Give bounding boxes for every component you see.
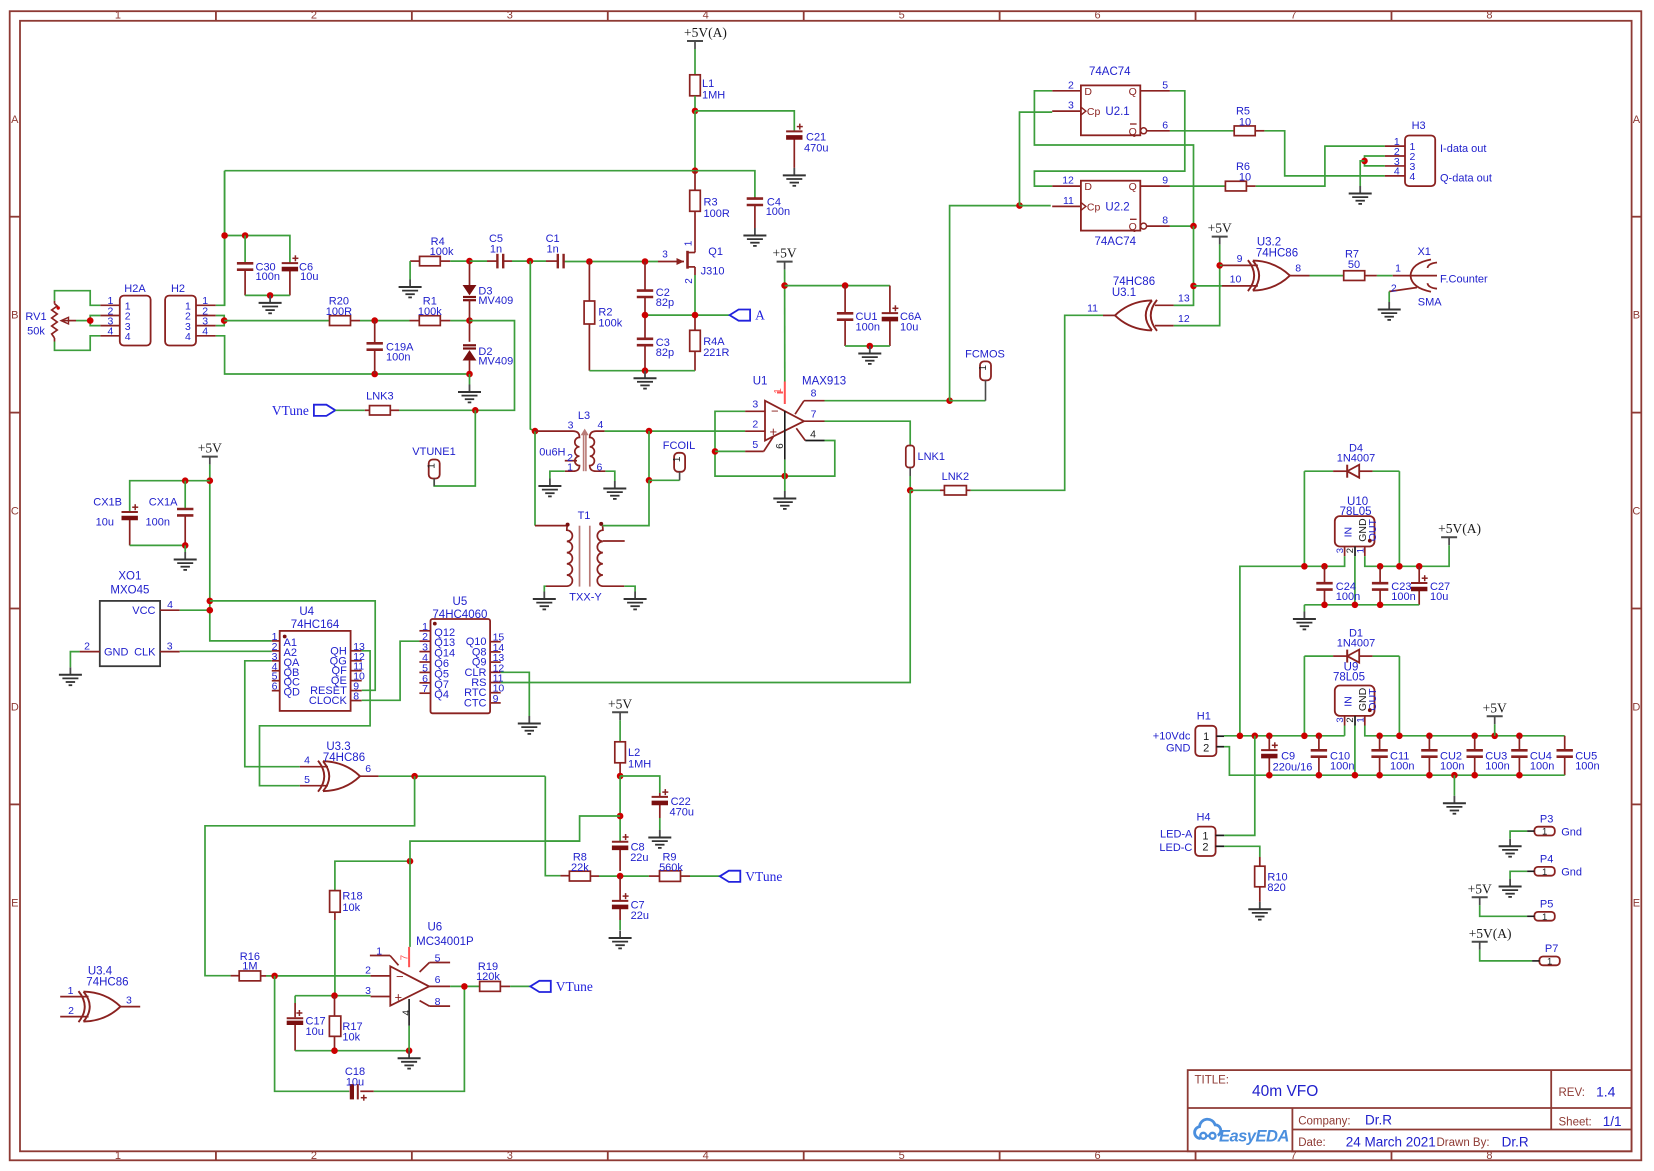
svg-text:7: 7 bbox=[400, 954, 411, 960]
ground X1 bbox=[1378, 302, 1401, 320]
binary counter U5 74HC4060 bbox=[419, 596, 504, 713]
svg-text:100n: 100n bbox=[856, 322, 880, 334]
junction grail C10 bbox=[1316, 772, 1323, 779]
wire C30 drop bbox=[244, 236, 246, 263]
junction C24 top bbox=[1321, 563, 1328, 570]
wire osc bottom rail bbox=[589, 370, 695, 372]
svg-text:100n: 100n bbox=[1336, 591, 1360, 603]
wire pin9 stub bbox=[1220, 264, 1222, 266]
wire LNK3 to node bbox=[399, 409, 475, 411]
wire R18 net bbox=[335, 861, 410, 891]
svg-text:1: 1 bbox=[567, 462, 573, 474]
svg-text:A: A bbox=[1633, 114, 1641, 126]
svg-text:3: 3 bbox=[1335, 717, 1346, 722]
svg-text:+5V(A): +5V(A) bbox=[1438, 521, 1481, 536]
svg-text:A: A bbox=[11, 114, 19, 126]
svg-text:5: 5 bbox=[899, 10, 905, 22]
net flag VTune out bbox=[530, 979, 593, 994]
wire C30-C6 bottom bbox=[245, 294, 290, 296]
svg-text:100k: 100k bbox=[418, 306, 442, 318]
svg-text:10u: 10u bbox=[900, 322, 918, 334]
connector X1 SMA bbox=[1389, 246, 1488, 308]
wire A line bbox=[645, 314, 730, 316]
svg-text:Q: Q bbox=[1129, 86, 1137, 98]
svg-text:+5V: +5V bbox=[1468, 881, 1492, 896]
ground C21 bbox=[783, 168, 806, 186]
svg-text:470u: 470u bbox=[670, 807, 694, 819]
svg-text:74HC164: 74HC164 bbox=[291, 619, 340, 631]
junction varactor mid node bbox=[466, 317, 473, 324]
svg-text:100n: 100n bbox=[1530, 761, 1554, 773]
svg-text:7: 7 bbox=[1290, 10, 1296, 22]
wire C18 branch bbox=[275, 976, 349, 1091]
svg-text:2: 2 bbox=[1068, 79, 1074, 91]
svg-text:B: B bbox=[1633, 310, 1640, 322]
svg-text:22k: 22k bbox=[571, 862, 589, 874]
wire U9 in stub bbox=[1344, 726, 1346, 736]
svg-text:13: 13 bbox=[1178, 293, 1190, 305]
wire RS long wire bbox=[501, 490, 911, 682]
junction rail H4 bbox=[1252, 733, 1259, 740]
wire Q2b net bbox=[1170, 225, 1194, 227]
flip-flop U2.2 74AC74 bbox=[1052, 175, 1170, 248]
ground P4 bbox=[1499, 879, 1522, 897]
svg-text:4: 4 bbox=[703, 1150, 709, 1162]
wire +5V L2 drop bbox=[619, 720, 621, 741]
svg-text:3: 3 bbox=[507, 1150, 513, 1162]
svg-text:EasyEDA: EasyEDA bbox=[1219, 1128, 1289, 1146]
capacitor CX1B bbox=[93, 497, 138, 546]
wire U3.3 to R8 bbox=[545, 776, 560, 876]
wire VTune to LNK3 bbox=[335, 409, 364, 411]
svg-text:100n: 100n bbox=[386, 352, 410, 364]
junction rail D1l bbox=[1301, 733, 1308, 740]
power flag +5V(A) P7 bbox=[1469, 926, 1512, 950]
wire H3.2 stub bbox=[1365, 156, 1385, 161]
pin P3 bbox=[1527, 813, 1582, 838]
svg-text:H1: H1 bbox=[1197, 710, 1211, 722]
svg-text:1: 1 bbox=[773, 388, 784, 394]
capacitor CU5 bbox=[1557, 736, 1600, 775]
wire long rail y171 bbox=[225, 170, 695, 172]
junction grail C9 bbox=[1266, 772, 1273, 779]
wire RV1 bot to H2A.4 bbox=[55, 336, 101, 351]
wire +5V drop bbox=[1219, 245, 1222, 326]
svg-text:Q: Q bbox=[1129, 221, 1137, 233]
svg-text:4: 4 bbox=[598, 419, 604, 431]
svg-text:1.4: 1.4 bbox=[1596, 1084, 1616, 1100]
svg-text:22u: 22u bbox=[631, 910, 649, 922]
svg-text:3: 3 bbox=[1068, 100, 1074, 112]
svg-text:4: 4 bbox=[402, 1010, 413, 1016]
capacitor C6 bbox=[282, 255, 319, 295]
wire vplus zig bbox=[410, 841, 580, 861]
svg-text:Q: Q bbox=[1129, 126, 1137, 138]
wire R4 to C5 node bbox=[450, 260, 469, 262]
capacitor CU1 bbox=[837, 286, 880, 346]
xor gate U3.1 74HC86 bbox=[1087, 276, 1190, 331]
junction U3.3 out node bbox=[411, 773, 418, 780]
svg-text:10: 10 bbox=[1239, 116, 1251, 128]
junction A-C3 bbox=[642, 312, 649, 319]
wire D1 left drop bbox=[1303, 656, 1305, 736]
wire R8 to node bbox=[599, 875, 649, 877]
wire gate line bbox=[565, 261, 659, 263]
wire gnd stub rail bbox=[1453, 775, 1455, 796]
resistor R3 bbox=[690, 171, 730, 251]
wire U1 pin3 feedback bbox=[715, 411, 785, 476]
svg-text:221R: 221R bbox=[703, 347, 729, 359]
svg-text:B: B bbox=[11, 310, 18, 322]
svg-text:100n: 100n bbox=[1391, 591, 1415, 603]
svg-text:1: 1 bbox=[1355, 717, 1366, 722]
junction rail D1r bbox=[1396, 733, 1403, 740]
svg-text:6: 6 bbox=[1095, 10, 1101, 22]
wire R16 to pin2 bbox=[266, 975, 371, 977]
junction L1 node bbox=[692, 108, 699, 115]
diode D4 1N4007 bbox=[1304, 442, 1399, 477]
title block bbox=[1188, 1070, 1632, 1151]
svg-text:2: 2 bbox=[684, 278, 695, 284]
varactor D2 bbox=[463, 321, 513, 374]
svg-text:CX1B: CX1B bbox=[93, 497, 122, 509]
svg-text:VTUNE1: VTUNE1 bbox=[412, 446, 455, 458]
svg-text:P4: P4 bbox=[1540, 854, 1553, 866]
svg-text:11: 11 bbox=[1087, 303, 1098, 315]
wire CLK wire bbox=[180, 650, 272, 652]
net flag VTune mid bbox=[720, 869, 783, 884]
svg-text:H2: H2 bbox=[171, 283, 185, 295]
svg-text:1N4007: 1N4007 bbox=[1337, 453, 1376, 465]
junction C23 bot bbox=[1377, 602, 1384, 609]
svg-text:10u: 10u bbox=[306, 1026, 324, 1038]
svg-text:P5: P5 bbox=[1540, 899, 1553, 911]
svg-text:9: 9 bbox=[493, 693, 499, 705]
capacitor C6A bbox=[882, 286, 922, 346]
ground T1 right bbox=[624, 592, 647, 610]
svg-text:11: 11 bbox=[1063, 195, 1074, 207]
svg-text:U3.1: U3.1 bbox=[1112, 287, 1136, 299]
wire LNK1 to node bbox=[909, 476, 911, 490]
svg-text:A: A bbox=[755, 308, 765, 323]
ground XO1 bbox=[59, 667, 82, 685]
capacitor CU3 bbox=[1467, 736, 1510, 775]
svg-text:1: 1 bbox=[978, 365, 989, 371]
svg-text:−: − bbox=[396, 969, 404, 984]
wire L3 pin1 gnd bbox=[550, 471, 565, 478]
junction D2 bottom node bbox=[466, 371, 473, 378]
junction U6 gnd node bbox=[406, 1047, 413, 1054]
ground R4 bbox=[399, 280, 422, 298]
svg-text:Gnd: Gnd bbox=[1561, 826, 1582, 838]
svg-text:8: 8 bbox=[435, 996, 441, 1008]
wire CLR gnd bbox=[501, 672, 530, 716]
svg-text:MXO45: MXO45 bbox=[110, 585, 149, 597]
svg-text:100n: 100n bbox=[1330, 761, 1354, 773]
svg-text:10u: 10u bbox=[1430, 591, 1448, 603]
svg-text:P3: P3 bbox=[1540, 813, 1553, 825]
svg-text:8: 8 bbox=[1162, 215, 1168, 227]
resistor R6 bbox=[1225, 161, 1255, 191]
junction mod node bbox=[617, 813, 624, 820]
svg-text:L1: L1 bbox=[702, 78, 714, 90]
EasyEDA logo bbox=[1195, 1119, 1289, 1145]
power flag +5V P5 bbox=[1468, 881, 1492, 905]
svg-text:3: 3 bbox=[507, 10, 513, 22]
svg-text:H4: H4 bbox=[1196, 812, 1210, 824]
wire junction to C21 bbox=[695, 111, 794, 131]
capacitor C9 bbox=[1261, 736, 1312, 775]
ground CX bbox=[174, 552, 197, 570]
junction CU1 rail node bbox=[781, 282, 788, 289]
wire clock riser bbox=[950, 206, 1020, 401]
wire L1 node down bbox=[694, 111, 696, 171]
junction rail-C30 node bbox=[221, 232, 228, 239]
wire T1 left gnd bbox=[544, 586, 546, 591]
svg-text:R2: R2 bbox=[598, 306, 612, 318]
link LNK1 bbox=[906, 446, 945, 477]
svg-text:4: 4 bbox=[125, 331, 131, 343]
svg-text:50k: 50k bbox=[27, 326, 45, 338]
op-amp U6 MC34001P bbox=[365, 922, 474, 1026]
xor gate U3.3 74HC86 bbox=[300, 741, 379, 792]
header H2A bbox=[100, 283, 150, 346]
resistor R8 bbox=[560, 851, 599, 881]
junction VTUNE1 node bbox=[472, 407, 479, 414]
junction grail U9g bbox=[1352, 772, 1359, 779]
capacitor C18 bbox=[345, 1066, 374, 1101]
header H3 bbox=[1385, 120, 1492, 186]
svg-text:LNK3: LNK3 bbox=[366, 391, 394, 403]
wire R7 to X1 bbox=[1377, 275, 1393, 277]
wire LNK2 to U3.1 bbox=[971, 315, 1103, 490]
wire Q1 source down bbox=[694, 275, 696, 315]
svg-text:REV:: REV: bbox=[1559, 1087, 1585, 1099]
wire pin13 wire bbox=[1174, 304, 1194, 306]
C17 top lead bbox=[294, 1003, 296, 1017]
potentiometer RV1 bbox=[25, 301, 76, 342]
svg-text:+5V(A): +5V(A) bbox=[1469, 926, 1512, 941]
svg-text:8: 8 bbox=[811, 388, 817, 400]
ground C4 bbox=[743, 228, 766, 246]
junction FCOIL node bbox=[646, 477, 653, 484]
svg-text:8: 8 bbox=[1295, 262, 1301, 274]
svg-text:4: 4 bbox=[304, 755, 310, 767]
svg-text:40m VFO: 40m VFO bbox=[1252, 1083, 1318, 1100]
svg-text:100R: 100R bbox=[704, 208, 730, 220]
svg-text:5: 5 bbox=[435, 953, 441, 965]
svg-text:10k: 10k bbox=[342, 1032, 360, 1044]
wire gnd rail U6 bbox=[295, 1050, 409, 1052]
svg-text:2: 2 bbox=[1391, 282, 1397, 294]
wire vplus drop bbox=[409, 861, 411, 947]
ground C22 bbox=[648, 818, 671, 848]
xor gate U3.4 74HC86 bbox=[60, 966, 140, 1023]
link LNK2 bbox=[910, 471, 971, 495]
svg-text:9: 9 bbox=[1237, 253, 1243, 265]
wire pin3 net bbox=[295, 995, 371, 997]
svg-text:LED-C: LED-C bbox=[1159, 842, 1192, 854]
oscillator XO1 MXO45 bbox=[80, 570, 180, 666]
junction R17 top node bbox=[331, 992, 338, 999]
svg-text:5: 5 bbox=[899, 1150, 905, 1162]
xor gate U3.2 74HC86 bbox=[1222, 236, 1310, 291]
svg-text:F.Counter: F.Counter bbox=[1440, 273, 1488, 285]
svg-text:3: 3 bbox=[568, 420, 574, 432]
svg-text:6: 6 bbox=[435, 974, 441, 986]
svg-text:−: − bbox=[771, 404, 779, 419]
svg-text:100n: 100n bbox=[146, 517, 170, 529]
capacitor C7 bbox=[612, 876, 649, 922]
shift register U4 74HC164 bbox=[272, 606, 365, 711]
wire +5V to U1 pin1 bbox=[784, 270, 786, 382]
wire FCMOS stub bbox=[950, 400, 986, 402]
svg-text:QD: QD bbox=[284, 687, 301, 699]
junction grail CU4 bbox=[1516, 772, 1523, 779]
svg-text:Q1: Q1 bbox=[708, 246, 723, 258]
wire RV1 top to H2A.1 bbox=[55, 291, 101, 306]
wire P3 gnd wire bbox=[1510, 831, 1527, 839]
resistor R9 bbox=[649, 851, 690, 881]
wire L3 pin6 gnd bbox=[605, 471, 614, 481]
svg-text:CTC: CTC bbox=[464, 697, 487, 709]
svg-text:9: 9 bbox=[1162, 175, 1168, 187]
wire R19 to VTune bbox=[510, 985, 530, 987]
wire X1 pin2 gnd bbox=[1388, 292, 1390, 303]
resistor R16 bbox=[231, 951, 266, 981]
wire U10 gnd drop bbox=[1354, 556, 1356, 605]
svg-text:1N4007: 1N4007 bbox=[1337, 638, 1376, 650]
transistor Q1 J310 bbox=[658, 240, 724, 284]
junction pin5 node bbox=[712, 448, 719, 455]
svg-text:+: + bbox=[395, 990, 403, 1005]
svg-text:FCMOS: FCMOS bbox=[965, 349, 1005, 361]
svg-text:P7: P7 bbox=[1545, 943, 1558, 955]
capacitor C27 bbox=[1411, 566, 1450, 605]
svg-text:+5V: +5V bbox=[1208, 221, 1232, 236]
inductor L2 bbox=[615, 742, 651, 777]
svg-text:MV409: MV409 bbox=[478, 356, 513, 368]
wire H3.3 stub bbox=[1365, 161, 1385, 166]
svg-text:74HC86: 74HC86 bbox=[1256, 247, 1298, 259]
svg-text:10: 10 bbox=[1239, 172, 1251, 184]
svg-text:2: 2 bbox=[84, 641, 90, 653]
junction gate-C2 bbox=[642, 258, 649, 265]
junction CU1 top bbox=[842, 282, 849, 289]
capacitor CX1A bbox=[146, 497, 194, 546]
wire +5V(A) to L1 bbox=[694, 49, 696, 75]
svg-text:100k: 100k bbox=[430, 246, 454, 258]
wire L3.4 to comparator bbox=[605, 430, 746, 432]
wire tune line to R20 bbox=[224, 320, 329, 322]
svg-text:74HC4060: 74HC4060 bbox=[432, 609, 487, 621]
junction D4r rail bbox=[1396, 563, 1403, 570]
capacitor C5 bbox=[487, 233, 512, 268]
svg-text:100n: 100n bbox=[1440, 761, 1464, 773]
svg-text:L2: L2 bbox=[628, 747, 640, 759]
svg-text:12: 12 bbox=[1062, 175, 1074, 187]
svg-text:3: 3 bbox=[126, 995, 132, 1007]
svg-text:Date:: Date: bbox=[1298, 1137, 1326, 1149]
wire U9 out rail bbox=[1365, 726, 1565, 736]
svg-text:TITLE:: TITLE: bbox=[1195, 1074, 1230, 1086]
wire D1 right drop bbox=[1398, 656, 1400, 736]
wire U1 out7 bbox=[825, 421, 911, 445]
capacitor C30 bbox=[237, 261, 280, 295]
wire U10 bottom rail bbox=[1304, 604, 1419, 606]
junction rail +5V bbox=[1491, 733, 1498, 740]
svg-text:VTune: VTune bbox=[745, 869, 782, 884]
wire Cp U2.2 bbox=[1020, 205, 1051, 207]
wire C5 left bbox=[470, 260, 488, 262]
svg-text:J310: J310 bbox=[701, 266, 725, 278]
svg-text:MC34001P: MC34001P bbox=[416, 936, 474, 948]
junction VTune div node bbox=[617, 873, 624, 880]
wire mod zigzag bbox=[545, 816, 620, 841]
wire CU1 rail bbox=[785, 285, 890, 287]
svg-text:5: 5 bbox=[304, 774, 310, 786]
junction C24 bot bbox=[1321, 602, 1328, 609]
header H4 bbox=[1159, 812, 1224, 856]
power flag +5V(A) reg bbox=[1438, 521, 1481, 545]
wire varactor node right bbox=[470, 321, 515, 411]
inductor L3 bbox=[535, 410, 605, 474]
svg-text:D: D bbox=[1084, 86, 1092, 98]
svg-text:2: 2 bbox=[1202, 841, 1208, 853]
svg-text:LED-A: LED-A bbox=[1160, 828, 1193, 840]
svg-text:OUT: OUT bbox=[1367, 688, 1379, 711]
svg-text:12: 12 bbox=[1178, 313, 1190, 325]
svg-text:74HC86: 74HC86 bbox=[323, 752, 365, 764]
junction R16 node bbox=[271, 973, 278, 980]
ground U6 bbox=[398, 1051, 421, 1069]
resistor R18 bbox=[330, 891, 363, 996]
wire U3.3 out bbox=[379, 775, 546, 777]
header H1 bbox=[1153, 710, 1224, 756]
wire H1 pin2 to gnd rail bbox=[1224, 747, 1565, 776]
wire H3 gnd wire bbox=[1360, 161, 1364, 186]
junction pin9 node bbox=[1216, 262, 1223, 269]
svg-text:6: 6 bbox=[272, 681, 278, 693]
regulator U10 78L05 bbox=[1335, 496, 1379, 556]
svg-text:2: 2 bbox=[311, 10, 317, 22]
svg-text:1M: 1M bbox=[242, 961, 257, 973]
svg-text:1: 1 bbox=[1203, 731, 1209, 743]
resistor R4 bbox=[410, 236, 454, 266]
one-pin FCMOS bbox=[965, 349, 1005, 401]
ground D2 bbox=[458, 374, 481, 402]
capacitor C3 bbox=[637, 315, 674, 371]
junction rail C11 bbox=[1376, 733, 1383, 740]
wire Q1 loop bbox=[1034, 91, 1184, 186]
ground CLR bbox=[518, 716, 541, 734]
wire T1 right top up bbox=[603, 480, 650, 525]
svg-text:2: 2 bbox=[68, 1005, 74, 1017]
svg-text:4: 4 bbox=[703, 10, 709, 22]
junction grail gnd bbox=[1451, 772, 1458, 779]
svg-text:1MH: 1MH bbox=[702, 90, 725, 102]
wire C17 top bbox=[294, 996, 296, 1003]
wire L3 node to T1 bbox=[534, 431, 536, 525]
wire CLOCK loop bbox=[362, 641, 420, 700]
svg-text:LNK1: LNK1 bbox=[918, 451, 946, 463]
ground T1 left bbox=[533, 592, 556, 610]
svg-text:8: 8 bbox=[353, 691, 359, 703]
junction Q2b node bbox=[1190, 223, 1197, 230]
wire H2 pin2/3 tie bbox=[216, 316, 224, 326]
wire CX gnd stub bbox=[184, 545, 186, 552]
capacitor C22 bbox=[652, 789, 694, 818]
